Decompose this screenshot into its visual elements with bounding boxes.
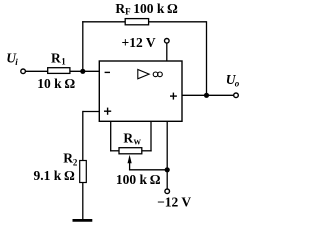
potentiometer RW body [119,148,142,154]
node junction wiper/-12V [165,167,170,172]
wire top left to RF [82,21,125,23]
svg-text:+12 V: +12 V [122,35,156,50]
svg-text:−12 V: −12 V [157,195,191,210]
op-amp minus sign [105,71,110,73]
wire feedback vertical down to output [206,21,208,95]
svg-text:9.1 k Ω: 9.1 k Ω [34,168,75,183]
svg-text:100 k Ω: 100 k Ω [116,172,161,187]
wire R1 to op-amp inverting input [70,70,100,72]
svg-text:R: R [123,130,133,145]
op-amp infinity symbol [153,72,158,77]
potentiometer wiper arrow [128,155,132,164]
wire pot left horizontal [110,150,119,152]
op-amp plus sign input [104,110,111,112]
svg-text:i: i [15,57,18,67]
svg-text:R: R [115,1,125,16]
node junction output/feedback [204,93,209,98]
wire +12V to op-amp top [166,44,168,62]
wire pot right vertical [150,121,152,151]
resistor RF [125,19,148,25]
svg-text:R: R [63,150,73,165]
op-amp U1 box [99,61,182,121]
wire feedback vertical up [82,21,84,71]
wire input to R1 [26,70,49,72]
ground [73,219,93,222]
node Uo output terminal [234,93,239,98]
wire wiper to supply node [129,169,167,171]
svg-text:R: R [51,50,61,65]
wire pot right horizontal [142,150,152,152]
wire output [182,94,234,96]
wire pot left vertical [110,121,112,151]
wire RF to right corner [149,21,207,23]
wire noninverting input [83,111,100,113]
svg-text:100 k Ω: 100 k Ω [133,1,178,16]
op-amp triangle symbol [138,70,149,79]
wire left vertical to ground [82,111,84,220]
svg-text:W: W [134,138,142,147]
op-amp plus sign output [170,95,177,97]
svg-text:F: F [125,7,131,17]
-12V terminal [165,189,170,194]
node Ui input terminal [21,69,26,74]
resistor R2 [80,161,87,183]
node junction at R1/feedback [80,69,85,74]
wire op-amp bottom to -12V [166,121,168,189]
resistor R1 [48,68,70,74]
svg-text:1: 1 [61,57,66,67]
svg-text:o: o [235,78,240,88]
+12V terminal [165,39,170,44]
svg-text:2: 2 [73,158,78,168]
svg-text:10 k Ω: 10 k Ω [37,76,75,91]
